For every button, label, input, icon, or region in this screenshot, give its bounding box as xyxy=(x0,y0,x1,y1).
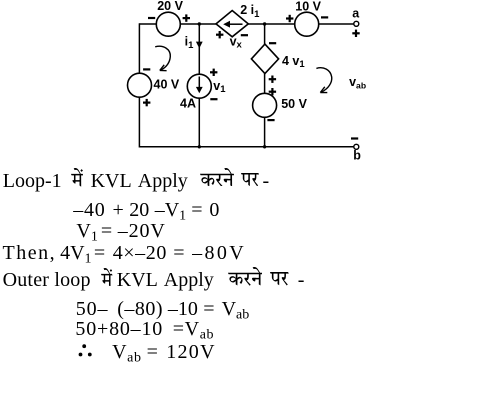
plus of 40V xyxy=(143,102,150,104)
plus of 50V xyxy=(269,91,276,93)
wire: right branch diamond to 50V xyxy=(264,74,266,94)
svg-text:vab: vab xyxy=(349,75,366,91)
wire: left rail upper xyxy=(138,23,140,73)
svg-text:v1: v1 xyxy=(213,79,226,95)
voltage source 20V circle xyxy=(156,12,180,36)
4A source arrowhead xyxy=(196,87,203,93)
svg-text:2 i1: 2 i1 xyxy=(240,3,260,20)
voltage source 40V circle xyxy=(128,73,152,97)
4A source internal arrow shaft xyxy=(198,77,200,88)
current source 4A circle xyxy=(187,74,211,98)
wire: top rail node A to diamond xyxy=(180,23,216,25)
svg-text:a: a xyxy=(352,6,360,20)
Devanagari word "par" line1 xyxy=(241,173,259,186)
svg-text:4 v1: 4 v1 xyxy=(282,54,305,70)
plus of v1 (4A source) xyxy=(210,71,217,73)
minus of v1 (4A source) xyxy=(210,98,217,100)
wire: right branch node B to diamond 4v1 xyxy=(264,24,266,44)
node dot bottom right xyxy=(263,145,266,148)
plus of 4v1 diamond xyxy=(269,78,276,80)
minus of 50V xyxy=(267,119,274,121)
dependent source 4v1 diamond xyxy=(251,44,278,74)
plus of 10V xyxy=(286,17,293,19)
minus of 20V xyxy=(148,17,155,19)
svg-text:10 V: 10 V xyxy=(295,0,321,14)
minus of 10V xyxy=(321,16,328,18)
Devanagari word "mein" line5 xyxy=(101,268,113,287)
terminal b open circle xyxy=(354,144,359,149)
plus of vx (diamond 2i1) xyxy=(216,34,223,36)
wire: left rail lower xyxy=(138,97,140,147)
voltage source 50V circle xyxy=(253,93,277,117)
circuit schematic xyxy=(0,0,499,166)
v_ab arrowhead xyxy=(320,87,327,93)
loop-1 arrowhead xyxy=(160,65,167,71)
svg-text:50 V: 50 V xyxy=(281,97,307,111)
minus of 4v1 diamond xyxy=(269,42,276,44)
plus at terminal a xyxy=(352,32,359,34)
solution text tokens xyxy=(3,171,62,191)
therefore symbol xyxy=(78,344,93,358)
2i1 diamond internal arrow shaft xyxy=(229,23,243,25)
wire: middle branch lower xyxy=(198,98,200,147)
minus at terminal b xyxy=(351,137,358,139)
Devanagari word "par" line5 xyxy=(270,272,289,285)
svg-text:4A: 4A xyxy=(180,97,196,111)
wire: middle branch upper xyxy=(198,24,200,74)
plus of 20V xyxy=(183,17,190,19)
wire: top rail 10V to terminal a xyxy=(319,23,354,25)
wire: top rail left segment xyxy=(139,23,156,25)
svg-text:b: b xyxy=(353,149,361,163)
terminal a open circle xyxy=(354,21,359,26)
v_ab curved arrow xyxy=(316,68,331,92)
svg-text:40 V: 40 V xyxy=(154,78,180,92)
2i1 arrowhead (points left) xyxy=(223,21,230,28)
node dot bottom middle xyxy=(198,145,201,148)
voltage source 10V circle xyxy=(295,12,319,36)
svg-text:20 V: 20 V xyxy=(157,0,183,13)
wire: right branch 50V to bottom rail xyxy=(264,117,266,147)
svg-text:i1: i1 xyxy=(185,34,194,51)
node dot B (top right) xyxy=(263,22,266,25)
wire: bottom rail xyxy=(139,146,353,148)
minus of vx (diamond 2i1) xyxy=(241,34,248,36)
loop-1 curved arrow xyxy=(155,46,170,70)
Devanagari word "mein" line1 xyxy=(71,168,83,187)
node dot A (top middle) xyxy=(198,22,201,25)
dependent source 2i1 diamond xyxy=(216,11,248,37)
svg-text:vx: vx xyxy=(230,35,243,51)
wire: top rail diamond to 10V xyxy=(248,23,294,25)
Devanagari word "karne" line5 xyxy=(228,267,263,286)
i1 current arrowhead on middle branch xyxy=(196,42,203,49)
minus of 40V xyxy=(143,68,150,70)
Devanagari word "karne" line1 xyxy=(200,168,234,187)
